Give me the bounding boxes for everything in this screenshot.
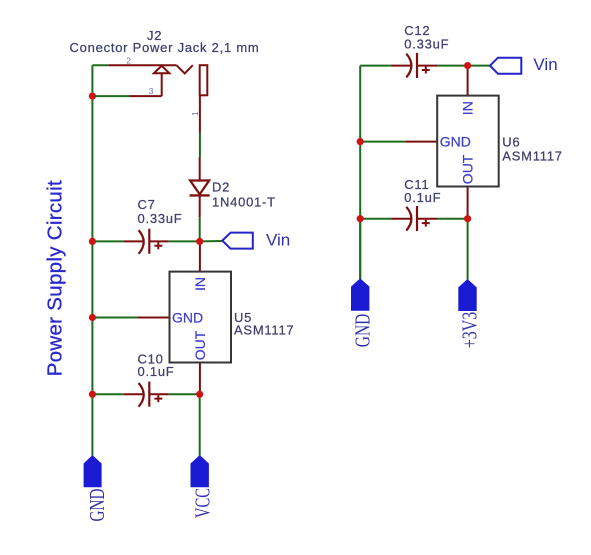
- curved plate: [139, 383, 144, 407]
- wire rail to C12: [360, 65, 391, 67]
- wire rail to C11: [360, 218, 391, 220]
- svg-text:0.33uF: 0.33uF: [404, 37, 449, 52]
- body rectangle: [170, 272, 232, 363]
- jack sleeve rectangle: [200, 65, 208, 95]
- wire top to jack pin2: [92, 64, 108, 66]
- power port GND right: [350, 279, 374, 347]
- diode triangle: [190, 181, 209, 195]
- svg-text:D2: D2: [212, 180, 230, 195]
- cathode bar: [190, 194, 210, 196]
- jack tip triangle: [154, 66, 170, 74]
- svg-text:+3V3: +3V3: [458, 312, 482, 348]
- svg-text:1: 1: [190, 111, 200, 116]
- straight plate: [148, 229, 150, 254]
- junction node jack pin3: [89, 93, 96, 100]
- plus sign: [422, 220, 430, 227]
- title text Power Supply Circuit: [43, 180, 66, 376]
- diode D2: [190, 158, 276, 218]
- wire jack to diode: [199, 133, 201, 158]
- regulator U6: [406, 66, 563, 219]
- straight plate: [416, 53, 418, 78]
- IN pin lead: [199, 241, 201, 271]
- svg-text:GND: GND: [85, 489, 109, 522]
- right lead: [417, 65, 437, 67]
- right lead: [149, 393, 168, 395]
- capacitor C12: [392, 23, 450, 78]
- svg-text:0.1uF: 0.1uF: [138, 364, 175, 379]
- wire rail to C10: [92, 393, 123, 395]
- junction node U6 GND: [357, 138, 364, 145]
- wire U6 GND pin to rail: [360, 141, 406, 143]
- svg-text:2: 2: [126, 55, 131, 65]
- power port GND left: [84, 456, 109, 522]
- junction node GND pin: [89, 314, 96, 321]
- left lead: [392, 218, 412, 220]
- svg-text:IN: IN: [192, 277, 208, 291]
- curved plate: [139, 230, 144, 254]
- right lead: [149, 240, 168, 242]
- IN pin lead: [467, 66, 469, 96]
- svg-text:Vin: Vin: [533, 55, 557, 74]
- svg-text:Conector Power Jack 2,1 mm: Conector Power Jack 2,1 mm: [70, 40, 260, 55]
- svg-text:Power Supply Circuit: Power Supply Circuit: [43, 180, 66, 376]
- power port VCC: [191, 456, 215, 518]
- curved plate: [406, 54, 411, 78]
- svg-text:Vin: Vin: [266, 231, 290, 250]
- plus sign: [422, 67, 430, 74]
- junction node C7 left: [89, 238, 96, 245]
- svg-text:ASM1117: ASM1117: [234, 322, 294, 337]
- svg-text:OUT: OUT: [460, 154, 476, 184]
- wire C11 to OUT node: [437, 218, 468, 220]
- svg-text:U6: U6: [502, 135, 520, 150]
- junction node C12 right: [464, 62, 471, 69]
- OUT pin lead: [467, 187, 469, 219]
- capacitor C11: [392, 177, 442, 231]
- right lead: [417, 218, 437, 220]
- plus sign: [154, 242, 162, 249]
- junction node VCC: [196, 391, 203, 398]
- svg-text:GND: GND: [440, 134, 471, 150]
- plus sign: [154, 395, 162, 402]
- svg-text:GND: GND: [350, 314, 374, 348]
- wire node to Vin port right: [468, 65, 491, 67]
- junction node C11 left: [357, 215, 364, 222]
- curved plate: [406, 207, 411, 231]
- jack spring contact V: [177, 65, 193, 73]
- capacitor C10: [124, 352, 175, 407]
- svg-text:0.33uF: 0.33uF: [138, 211, 183, 226]
- wire right rail: [359, 66, 361, 279]
- capacitor C7: [124, 197, 183, 254]
- body rectangle: [437, 96, 499, 187]
- wire rail to C7: [92, 240, 123, 242]
- svg-text:C7: C7: [138, 197, 156, 212]
- straight plate: [148, 382, 150, 407]
- GND pin lead: [138, 317, 170, 319]
- junction node Vin: [196, 238, 203, 245]
- wire left rail: [91, 65, 93, 456]
- svg-text:3: 3: [149, 86, 154, 96]
- svg-text:1N4001-T: 1N4001-T: [212, 195, 276, 210]
- svg-text:ASM1117: ASM1117: [502, 148, 562, 163]
- wire rail to GND flag right: [359, 219, 361, 279]
- pin 3 lead: [130, 95, 162, 97]
- junction node C10 left: [89, 391, 96, 398]
- wire C10 to OUT node: [168, 393, 199, 395]
- svg-text:0.1uF: 0.1uF: [404, 190, 441, 205]
- wire C12 to node: [437, 65, 468, 67]
- junction node C11 right: [464, 215, 471, 222]
- anode lead: [199, 158, 201, 181]
- pin 2 lead: [108, 64, 176, 66]
- left lead: [124, 393, 144, 395]
- cathode lead: [199, 195, 201, 217]
- GND pin lead: [406, 141, 437, 143]
- pin 1 lead: [199, 95, 201, 132]
- wire node to Vin port: [200, 240, 223, 242]
- OUT pin lead: [199, 363, 201, 395]
- power port +3V3: [458, 280, 482, 349]
- wire OUT node to 3V3: [467, 219, 469, 280]
- left lead: [392, 65, 412, 67]
- straight plate: [416, 206, 418, 231]
- wire jack pin3 to rail: [92, 95, 130, 97]
- connector J2 power jack: [70, 28, 260, 132]
- wire C7 to node: [168, 240, 199, 242]
- svg-text:IN: IN: [460, 101, 476, 115]
- power port Vin right: [490, 55, 558, 74]
- svg-text:VCC: VCC: [191, 488, 215, 518]
- wire diode to Vin node: [199, 217, 201, 241]
- regulator U5: [138, 241, 294, 394]
- svg-text:GND: GND: [172, 310, 203, 326]
- left lead: [124, 240, 144, 242]
- wire GND pin to rail: [92, 317, 138, 319]
- jack tip stem: [161, 73, 163, 96]
- svg-text:OUT: OUT: [192, 330, 208, 360]
- wire OUT node to VCC: [199, 394, 201, 456]
- power port Vin left: [222, 231, 290, 250]
